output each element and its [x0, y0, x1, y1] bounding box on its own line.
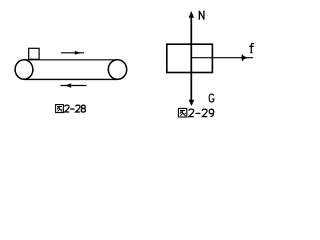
right pulley	[108, 60, 126, 80]
belt top line	[24, 59, 118, 61]
caption text 2-28	[65, 105, 70, 112]
left pulley	[15, 60, 33, 80]
label f	[249, 44, 254, 53]
caption glyph 图 (fig 2-28)	[56, 105, 64, 113]
label N	[199, 11, 205, 19]
arrowhead G (down)	[189, 100, 195, 106]
block on belt	[29, 48, 39, 59]
caption text 2-29	[189, 109, 194, 116]
belt bottom line	[24, 78, 118, 80]
force line f	[191, 57, 253, 59]
belt top arrow (right)	[61, 51, 84, 55]
label G	[209, 94, 214, 102]
arrowhead f (right)	[242, 55, 248, 62]
belt bottom arrow (left)	[61, 83, 87, 87]
vertical force line N-G	[190, 15, 192, 101]
arrowhead N (up)	[189, 11, 194, 18]
block rectangle (fig 2-29)	[167, 44, 213, 72]
caption glyph 图 (fig 2-29)	[178, 108, 186, 117]
